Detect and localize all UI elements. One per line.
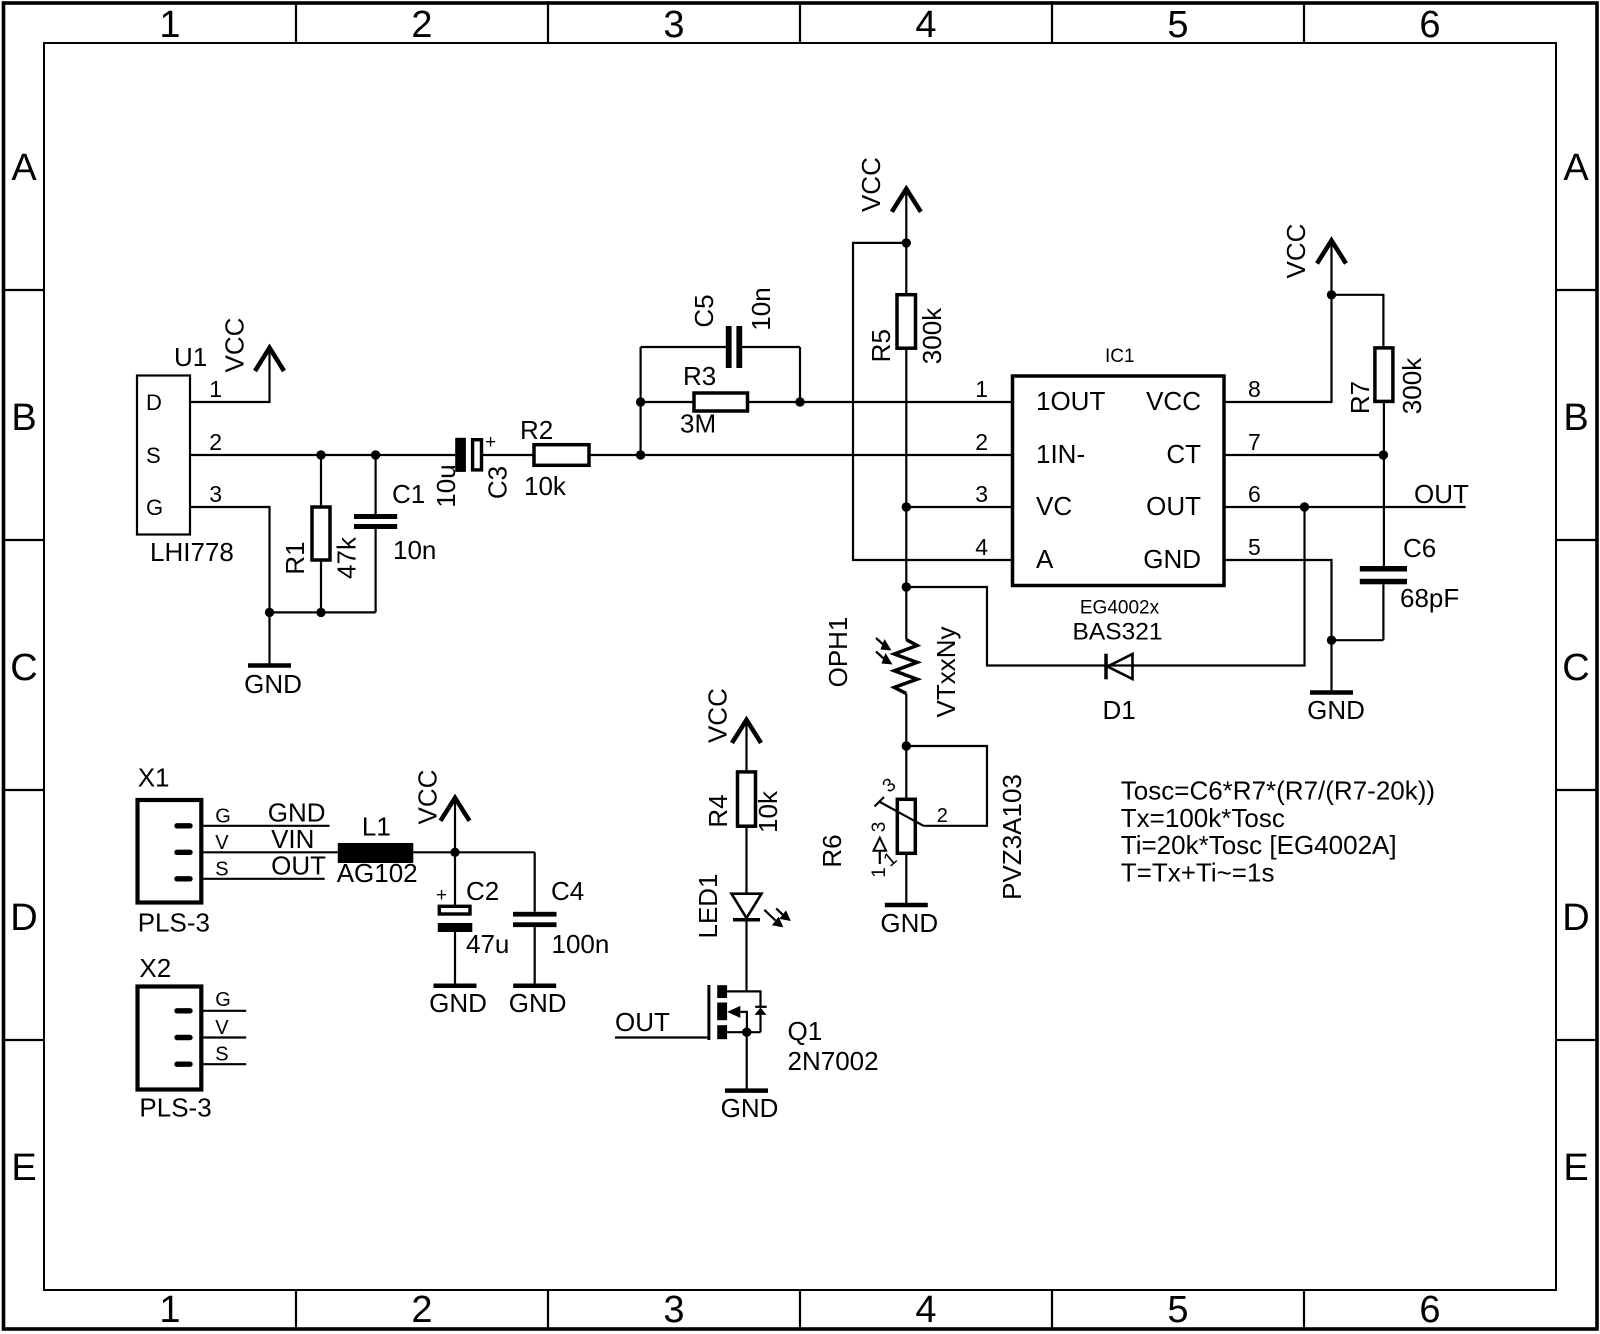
- svg-text:10u: 10u: [431, 464, 461, 507]
- svg-text:2: 2: [975, 429, 988, 455]
- svg-text:Ti=20k*Tosc [EG4002A]: Ti=20k*Tosc [EG4002A]: [1121, 830, 1397, 860]
- inductor L1 AG102: [338, 812, 414, 864]
- svg-text:R5: R5: [866, 329, 896, 362]
- svg-text:47k: 47k: [332, 536, 362, 579]
- svg-text:VCC: VCC: [1146, 386, 1201, 416]
- svg-text:GND: GND: [429, 988, 487, 1018]
- svg-text:5: 5: [1248, 534, 1261, 560]
- frame row ticks: [3, 290, 1597, 1040]
- diode D1 BAS321: [1073, 619, 1163, 726]
- junction dot node A: [636, 450, 645, 459]
- svg-text:OUT: OUT: [1414, 479, 1469, 509]
- svg-text:10k: 10k: [753, 790, 783, 833]
- PIR sensor U1 LHI778: [137, 342, 234, 567]
- wire R5 to IC1 pin3: [906, 506, 1012, 508]
- svg-text:OUT: OUT: [615, 1007, 670, 1037]
- wire node OPH1 top to D1: [906, 507, 1304, 666]
- wire C6 bottom to ground: [1332, 639, 1384, 641]
- wire R3 to IC1 pin1: [800, 401, 1013, 403]
- svg-text:2N7002: 2N7002: [788, 1046, 879, 1076]
- wire IC1 pin8 to VCC: [1224, 240, 1332, 402]
- wire node A to IC1 pin2: [641, 454, 1013, 456]
- svg-text:C: C: [10, 647, 37, 689]
- junction dot OUT: [1300, 502, 1309, 511]
- frame column labels bottom: [159, 1289, 1440, 1331]
- ground GND (C4): [509, 986, 567, 1018]
- wire to GND symbol: [268, 612, 270, 665]
- junction dot ground right: [1327, 636, 1336, 645]
- svg-text:3M: 3M: [680, 409, 716, 439]
- junction dot VCC node: [450, 848, 459, 857]
- svg-text:7: 7: [1248, 429, 1261, 455]
- svg-text:VC: VC: [1036, 491, 1072, 521]
- ground GND (C6 area): [1307, 693, 1365, 726]
- svg-text:GND: GND: [1307, 695, 1365, 725]
- svg-text:+: +: [485, 432, 496, 453]
- svg-text:C: C: [1562, 647, 1589, 689]
- wire C3 to R2: [483, 454, 534, 456]
- wire OUT to Q1 gate: [615, 1036, 707, 1038]
- svg-text:OUT: OUT: [1146, 491, 1201, 521]
- svg-text:B: B: [1563, 397, 1588, 439]
- svg-text:R1: R1: [280, 541, 310, 574]
- R6 direction indicator 1 to 3: [869, 822, 890, 878]
- svg-text:LED1: LED1: [693, 873, 723, 938]
- svg-text:8: 8: [1248, 376, 1261, 402]
- svg-text:1: 1: [209, 376, 222, 402]
- VCC symbol at L1: [413, 770, 470, 853]
- resistor R7: [1345, 348, 1393, 566]
- formula text block: [1121, 776, 1435, 888]
- X1 pin V wire: [203, 851, 337, 853]
- svg-text:6: 6: [1248, 481, 1261, 507]
- resistor R2: [520, 415, 589, 465]
- wire IC1 pin7 CT to R7: [1224, 454, 1383, 456]
- svg-text:C5: C5: [689, 294, 719, 327]
- wire U1 pin1 to VCC: [190, 347, 270, 402]
- svg-text:1: 1: [159, 1289, 180, 1331]
- svg-text:C4: C4: [551, 876, 584, 906]
- svg-text:A: A: [1036, 544, 1054, 574]
- node S junction dots: [316, 450, 325, 459]
- svg-text:4: 4: [915, 4, 936, 46]
- svg-text:PLS-3: PLS-3: [139, 1093, 211, 1123]
- svg-text:X2: X2: [139, 953, 171, 983]
- ground GND (C2): [429, 986, 487, 1018]
- svg-text:E: E: [11, 1147, 36, 1189]
- resistor R1: [280, 455, 330, 612]
- svg-text:GND: GND: [509, 988, 567, 1018]
- X1 pin G wire: [203, 825, 329, 827]
- svg-text:VCC: VCC: [703, 688, 733, 743]
- wire U1 pin3 to GND rail: [190, 507, 270, 612]
- connector X2 PLS-3: [138, 953, 212, 1123]
- capacitor C5: [641, 294, 800, 368]
- connector X1 PLS-3: [138, 762, 210, 937]
- svg-text:GND: GND: [721, 1093, 779, 1123]
- svg-text:10n: 10n: [746, 287, 776, 330]
- svg-text:T=Tx+Ti~=1s: T=Tx+Ti~=1s: [1121, 857, 1275, 887]
- svg-text:G: G: [215, 989, 231, 1011]
- svg-text:U1: U1: [174, 342, 207, 372]
- svg-text:S: S: [146, 443, 161, 468]
- svg-text:LHI778: LHI778: [150, 537, 234, 567]
- resistor R3: [641, 361, 800, 411]
- junction dot R3 right: [795, 397, 804, 406]
- svg-text:C1: C1: [392, 479, 425, 509]
- svg-text:GND: GND: [880, 908, 938, 938]
- junction dot VCC R7: [1327, 290, 1336, 299]
- svg-text:B: B: [11, 397, 36, 439]
- svg-text:2: 2: [937, 805, 948, 827]
- svg-text:IC1: IC1: [1105, 346, 1135, 367]
- svg-text:C2: C2: [466, 876, 499, 906]
- ground GND (Q1): [721, 1091, 779, 1123]
- svg-text:E: E: [1563, 1147, 1588, 1189]
- resistor R5: [866, 243, 916, 640]
- svg-text:OUT: OUT: [271, 851, 326, 881]
- svg-text:V: V: [215, 832, 229, 854]
- frame column labels top: [159, 4, 1440, 46]
- svg-text:300k: 300k: [1397, 357, 1427, 414]
- svg-text:BAS321: BAS321: [1073, 619, 1163, 646]
- X2 pin V wire: [203, 1036, 246, 1038]
- svg-text:5: 5: [1167, 4, 1188, 46]
- svg-text:G: G: [146, 495, 163, 520]
- svg-text:D1: D1: [1103, 695, 1136, 725]
- svg-text:A: A: [11, 147, 37, 189]
- ground GND (R6): [880, 905, 938, 938]
- svg-text:GND: GND: [244, 669, 302, 699]
- svg-text:GND: GND: [1143, 544, 1201, 574]
- svg-text:2: 2: [411, 1289, 432, 1331]
- wire C5 right down to R3 wire: [799, 347, 801, 402]
- capacitor C2 (electrolytic 47u): [436, 852, 499, 985]
- IC1 EG4002x: [1013, 346, 1225, 619]
- svg-text:A: A: [1563, 147, 1589, 189]
- svg-text:1: 1: [869, 867, 890, 878]
- svg-text:VCC: VCC: [1281, 224, 1311, 279]
- X2 pin S wire: [203, 1063, 246, 1065]
- svg-text:VCC: VCC: [856, 157, 886, 212]
- svg-text:Tx=100k*Tosc: Tx=100k*Tosc: [1121, 803, 1285, 833]
- svg-text:100n: 100n: [552, 929, 610, 959]
- svg-text:1: 1: [159, 4, 180, 46]
- svg-text:V: V: [215, 1017, 229, 1039]
- svg-text:6: 6: [1419, 4, 1440, 46]
- svg-text:3: 3: [663, 4, 684, 46]
- svg-text:10k: 10k: [524, 471, 567, 501]
- svg-text:R2: R2: [520, 415, 553, 445]
- junction dot below VCC R5: [902, 238, 911, 247]
- junction dot R6 top: [902, 741, 911, 750]
- svg-text:R7: R7: [1345, 381, 1375, 414]
- svg-text:S: S: [215, 1044, 228, 1066]
- GND rail wire below R1/C1: [270, 611, 376, 613]
- svg-text:Q1: Q1: [788, 1016, 823, 1046]
- svg-text:68pF: 68pF: [1400, 583, 1459, 613]
- node A vertical wire: [639, 347, 641, 455]
- wire IC1 pin5 GND to ground: [1224, 560, 1332, 693]
- wire OPH1 to R6: [905, 694, 907, 800]
- svg-text:D: D: [1562, 897, 1589, 939]
- junction dot OPH1 top: [902, 582, 911, 591]
- svg-text:R6: R6: [817, 834, 847, 867]
- junction dot R3 left: [636, 397, 645, 406]
- svg-text:47u: 47u: [466, 929, 509, 959]
- svg-text:EG4002x: EG4002x: [1080, 598, 1160, 619]
- capacitor C3 (electrolytic 10u): [455, 432, 512, 499]
- LED1: [693, 873, 791, 991]
- junction dots on GND rail: [265, 608, 274, 617]
- svg-text:+: +: [436, 885, 447, 906]
- X2 pin G wire: [203, 1010, 246, 1012]
- svg-text:X1: X1: [138, 762, 170, 792]
- VCC symbol at U1: [220, 318, 285, 373]
- VCC symbol at R5: [856, 157, 921, 243]
- VCC symbol at R4: [703, 688, 762, 772]
- capacitor C6: [1360, 533, 1436, 640]
- svg-text:10n: 10n: [393, 535, 436, 565]
- svg-text:D: D: [146, 390, 162, 415]
- svg-text:1IN-: 1IN-: [1036, 439, 1085, 469]
- wire L1 to VCC node: [413, 851, 534, 853]
- svg-text:3: 3: [663, 1289, 684, 1331]
- wire R2 to node A: [589, 454, 641, 456]
- svg-text:L1: L1: [362, 812, 391, 842]
- svg-text:S: S: [215, 859, 228, 881]
- wire VCC rail to IC1 pin4: [853, 243, 1013, 560]
- svg-text:5: 5: [1167, 1289, 1188, 1331]
- frame row labels right: [1562, 147, 1589, 1189]
- photoresistor OPH1 VTxxNy: [823, 617, 917, 694]
- resistor R4: [703, 772, 756, 894]
- svg-text:4: 4: [975, 534, 988, 560]
- svg-text:CT: CT: [1166, 439, 1201, 469]
- wire VCC to R7: [1332, 295, 1384, 348]
- svg-text:R4: R4: [703, 794, 733, 827]
- svg-text:VTxxNy: VTxxNy: [931, 627, 961, 718]
- trimmer R6 PVZ3A103: [817, 797, 924, 905]
- svg-text:OPH1: OPH1: [823, 617, 853, 688]
- svg-text:VCC: VCC: [413, 770, 443, 825]
- svg-text:GND: GND: [268, 798, 326, 828]
- svg-text:VCC: VCC: [220, 318, 250, 373]
- svg-text:Tosc=C6*R7*(R7/(R7-20k)): Tosc=C6*R7*(R7/(R7-20k)): [1121, 776, 1435, 806]
- svg-text:R3: R3: [683, 361, 716, 391]
- VCC symbol at R7: [1281, 224, 1346, 279]
- ground GND (U1 area): [244, 666, 302, 700]
- svg-text:4: 4: [915, 1289, 936, 1331]
- svg-text:3: 3: [209, 481, 222, 507]
- svg-text:G: G: [215, 806, 231, 828]
- junction dot CT: [1379, 450, 1388, 459]
- svg-text:C6: C6: [1403, 533, 1436, 563]
- svg-text:3: 3: [975, 481, 988, 507]
- svg-text:D: D: [10, 897, 37, 939]
- svg-text:1: 1: [975, 376, 988, 402]
- svg-text:3: 3: [869, 822, 890, 833]
- svg-text:300k: 300k: [917, 307, 947, 364]
- capacitor C1: [354, 455, 425, 612]
- junction dot pin3: [902, 502, 911, 511]
- svg-text:PVZ3A103: PVZ3A103: [997, 774, 1027, 900]
- X1 pin S wire: [203, 878, 324, 880]
- svg-text:C3: C3: [483, 466, 513, 499]
- wire R6 wiper loop: [906, 746, 987, 826]
- svg-text:2: 2: [411, 4, 432, 46]
- svg-text:6: 6: [1419, 1289, 1440, 1331]
- svg-text:VIN: VIN: [271, 824, 314, 854]
- svg-text:2: 2: [209, 429, 222, 455]
- frame row labels left: [10, 147, 37, 1189]
- svg-text:PLS-3: PLS-3: [138, 908, 210, 938]
- svg-text:AG102: AG102: [337, 858, 418, 888]
- transistor Q1 2N7002: [709, 985, 822, 1091]
- capacitor C4: [513, 852, 584, 985]
- frame column ticks: [296, 3, 1304, 1329]
- wire U1 pin2 to C3 (signal S): [190, 454, 455, 456]
- wire IC1 pin6 OUT: [1224, 506, 1466, 508]
- svg-text:1OUT: 1OUT: [1036, 386, 1105, 416]
